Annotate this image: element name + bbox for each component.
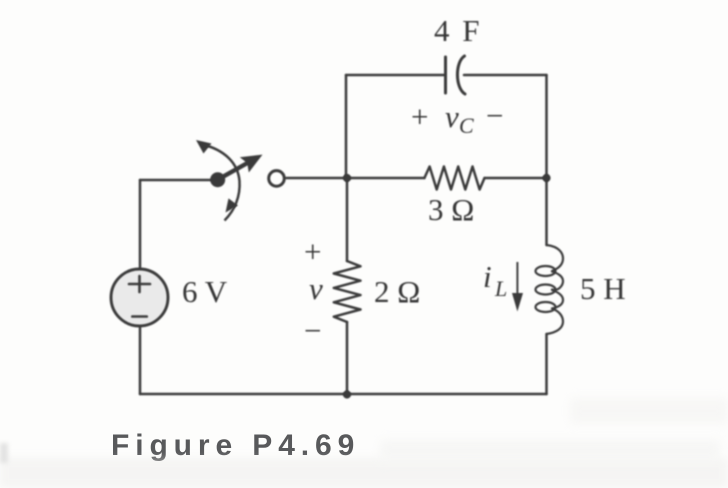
voltage source 6 V: circle: [111, 269, 168, 326]
inductor current arrow iL: [516, 262, 518, 295]
node junction dot: bottom node: [343, 390, 351, 398]
wire: middle horizontal (3-ohm resistor to right node): [485, 177, 547, 180]
wire: top loop left vertical: [345, 75, 348, 178]
capacitor C 4F: left plate: [444, 57, 447, 93]
wire: center branch upper (node to 2-ohm resistor): [346, 178, 349, 261]
switch: blade arrow: [217, 155, 263, 182]
svg-text:−: −: [304, 313, 321, 348]
wire: right branch (inductor bottom to bottom rail): [545, 334, 548, 394]
svg-text:5 H: 5 H: [580, 271, 626, 306]
wire: left vertical top (source to switch level): [139, 180, 142, 269]
switch: motion arc: [201, 144, 240, 221]
switch: pivot dot: [210, 172, 225, 187]
wire: middle horizontal (switch contact to 3-ohm resistor): [287, 177, 425, 180]
wire: left vertical bottom (source to bottom rail): [139, 326, 142, 394]
svg-text:4 F: 4 F: [434, 13, 482, 48]
svg-text:2 Ω: 2 Ω: [374, 274, 420, 309]
svg-text:v: v: [309, 271, 323, 306]
svg-text:+: +: [304, 234, 321, 269]
wire: top loop horizontal right of capacitor: [464, 74, 547, 77]
wire: center branch lower (2-ohm resistor to bottom rail): [346, 322, 349, 394]
svg-text:i: i: [483, 259, 492, 294]
svg-text:C: C: [459, 113, 474, 138]
switch: open contact circle: [269, 171, 285, 187]
voltage source 6 V: minus mark: [132, 315, 147, 318]
switch: motion arrowhead upper-left: [196, 140, 212, 154]
svg-text:3 Ω: 3 Ω: [428, 192, 474, 227]
switch: motion arrowhead lower: [226, 198, 239, 212]
wire: bottom rail: [140, 393, 547, 396]
resistor 2 ohm (vertical zigzag): [334, 261, 361, 322]
wire: top loop right vertical: [545, 75, 548, 178]
svg-text:+: +: [411, 99, 428, 134]
node junction dot: middle-left node: [343, 174, 351, 182]
capacitor C 4F: right curved plate: [457, 56, 465, 94]
node junction dot: middle-right node: [542, 174, 550, 182]
svg-text:−: −: [486, 98, 503, 133]
wire: right branch (node to inductor top): [545, 178, 548, 245]
voltage source 6 V: plus mark: [129, 276, 150, 292]
inductor 5 H: loop ellipse 3: [536, 302, 556, 312]
svg-text:L: L: [494, 276, 507, 301]
inductor 5 H: coil right-side scallops: [547, 245, 564, 334]
svg-text:v: v: [445, 99, 459, 134]
svg-text:6 V: 6 V: [182, 274, 228, 309]
inductor 5 H: loop ellipse 1: [536, 266, 556, 276]
inductor 5 H: loop ellipse 2: [536, 285, 556, 295]
wire: top-left horizontal to switch pivot: [140, 179, 213, 182]
resistor 3 ohm (horizontal zigzag): [424, 167, 484, 190]
svg-text:Figure P4.69: Figure P4.69: [111, 429, 360, 462]
wire: top loop horizontal left of capacitor: [346, 74, 445, 77]
scan noise bottom band: [0, 398, 728, 488]
